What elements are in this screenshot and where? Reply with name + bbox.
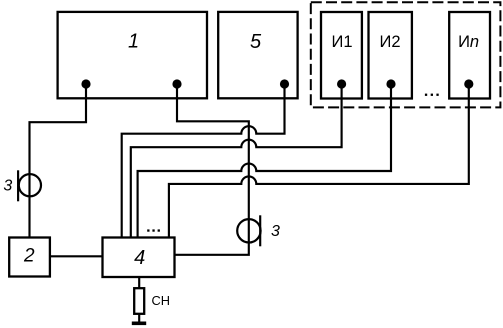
svg-text:1: 1 (128, 30, 139, 52)
svg-text:И1: И1 (331, 33, 352, 51)
svg-text:СН: СН (152, 293, 170, 308)
svg-text:5: 5 (250, 31, 262, 53)
svg-text:2: 2 (23, 246, 35, 267)
svg-text:4: 4 (134, 247, 145, 269)
svg-text:3: 3 (3, 178, 12, 195)
svg-text:Иn: Иn (458, 33, 479, 51)
svg-text:И2: И2 (379, 33, 400, 51)
svg-text:3: 3 (271, 223, 280, 240)
